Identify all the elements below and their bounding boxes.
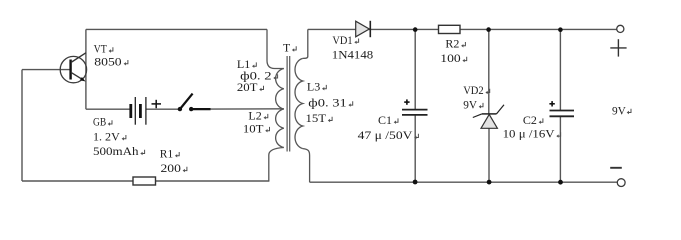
label VD1 [332,33,358,47]
transistor Q1 VT 8050 [60,53,86,83]
battery GB plates [131,97,146,125]
svg-text:GB: GB [93,115,106,129]
output terminal bottom [617,179,625,187]
junction node bottom C1 [413,180,418,185]
capacitor C1 leads [414,29,416,109]
svg-text:VD1: VD1 [332,33,352,47]
label VT [94,42,113,56]
svg-text:1N4148: 1N4148 [332,48,373,62]
switch contact dot [189,107,193,111]
output minus sign [610,167,622,169]
svg-text:VD2: VD2 [463,83,484,97]
wire: bottom rail right [310,181,618,183]
label L2 [248,108,267,122]
svg-text:R1: R1 [160,146,173,160]
label phi 0.31 [308,96,352,110]
transformer T primary winding L1/L2 [276,69,284,148]
junction node bottom VD2 [487,180,492,185]
label C1 [378,113,398,127]
svg-text:C2: C2 [523,113,537,127]
label L1 [237,57,256,71]
svg-text:R2: R2 [445,36,459,50]
svg-text:200: 200 [161,161,181,175]
svg-text:C1: C1 [378,113,392,127]
label C2 [523,113,543,127]
label 9V (output) [612,103,631,117]
battery GB wires [86,108,130,110]
label R1 [160,146,179,160]
switch bold lead [191,108,210,110]
switch pivot dot [178,107,182,111]
label 100 [440,51,466,65]
svg-text:20T: 20T [237,80,258,94]
svg-text:100: 100 [440,51,460,65]
svg-text:1. 2V: 1. 2V [93,129,120,143]
label VD2 [463,83,489,97]
battery plus sign [152,100,162,108]
wire: bottom-left return wire [22,180,269,182]
wire: base wire to transistor [22,69,71,71]
switch S blade [180,94,193,109]
wire: collector/emitter vertical [85,29,87,109]
wire: far-left vertical bus [21,70,23,181]
svg-text:L3: L3 [307,79,320,93]
transformer T secondary winding L3 [295,58,303,148]
transformer T secondary lead bottom [303,149,310,183]
label 47u/50V [358,128,419,142]
C1 plus sign [404,99,409,104]
label 1N4148 [332,48,373,62]
svg-text:L2: L2 [248,108,261,122]
resistor R2 [439,25,461,33]
svg-text:500mAh: 500mAh [93,144,139,158]
zener VD2 [473,105,504,129]
junction node top C2 [558,27,563,32]
label phi 0.2 [240,69,277,83]
svg-text:ф0. 31: ф0. 31 [308,96,346,110]
label R2 [445,36,465,50]
label 15T [306,111,333,125]
wire: top rail right [308,28,617,30]
C2 plus sign [549,101,554,106]
output plus sign [610,39,626,56]
wire: switch to primary tap [211,108,284,110]
label 10T [243,121,270,135]
resistor R1 [133,177,156,185]
output terminal top [617,25,624,32]
svg-text:8050: 8050 [94,54,121,68]
label 20T [237,80,264,94]
svg-text:15T: 15T [306,111,327,125]
svg-text:47 μ /50V: 47 μ /50V [358,128,413,142]
svg-text:T: T [283,41,291,55]
junction node top VD2 [486,27,491,32]
zener VD2 leads [488,29,490,114]
label 1.2V [93,129,126,143]
label 9V (zener) [463,97,483,111]
diode VD1 1N4148 [356,21,371,37]
svg-text:9V: 9V [463,97,477,111]
label T [283,41,296,55]
transformer T primary lead bottom [269,148,284,182]
label L3 [307,79,326,93]
transformer core [287,56,290,152]
junction node bottom C2 [558,180,563,185]
wire: top wire (collector to primary) [86,28,267,30]
capacitor C2 plates [550,111,575,117]
label 200 [161,161,187,175]
svg-text:10T: 10T [243,121,264,135]
label 500mAh [93,144,145,158]
capacitor C2 leads [559,29,561,110]
junction node top C1 [413,27,418,32]
label 8050 [94,54,128,68]
label 10u/16V [503,127,561,141]
svg-text:9V: 9V [612,103,626,117]
transformer T secondary lead top [303,29,308,58]
svg-text:10 μ /16V: 10 μ /16V [503,127,555,141]
label GB [93,115,112,129]
capacitor C1 plates [402,110,428,115]
transformer T primary lead top [267,29,284,68]
